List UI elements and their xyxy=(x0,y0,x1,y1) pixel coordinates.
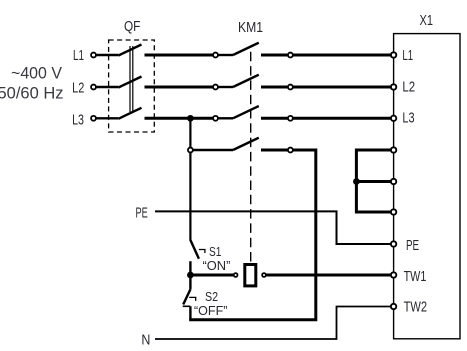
svg-text:L3: L3 xyxy=(402,111,414,127)
X1 spare terminal 1 xyxy=(391,147,396,152)
wire L3 input to QF pole 3 xyxy=(96,117,118,119)
terminal L2 (supply input) xyxy=(72,81,96,97)
wire QF pole 1 to KM1 contact 1 xyxy=(145,54,213,57)
terminal block X1 outline xyxy=(394,34,460,339)
contactor coil KM1 xyxy=(234,265,266,286)
KM1 auxiliary contact (latching) xyxy=(188,138,293,153)
svg-text:TW1: TW1 xyxy=(404,269,427,285)
wire QF pole 3 to KM1 contact 3 xyxy=(145,117,213,120)
svg-text:“ON”: “ON” xyxy=(203,258,231,273)
pushbutton S1 "ON" xyxy=(190,240,230,275)
svg-text:TW2: TW2 xyxy=(404,300,428,316)
KM1 main contact 2 xyxy=(213,75,293,90)
wire KM1 contact 1 to X1 terminal L1 xyxy=(293,54,390,57)
X1 spare terminal 2 xyxy=(391,179,396,184)
wire KM1 aux contact loop to S2 bottom xyxy=(189,150,316,320)
svg-text:“OFF”: “OFF” xyxy=(194,303,227,318)
svg-text:N: N xyxy=(141,333,150,349)
svg-text:PE: PE xyxy=(136,205,149,221)
terminal L1 (supply input) xyxy=(73,48,96,64)
terminal L3 (supply input) xyxy=(72,112,96,128)
svg-text:X1: X1 xyxy=(420,13,434,29)
wire N to X1 terminal TW2 xyxy=(155,307,391,340)
svg-text:50/60 Hz: 50/60 Hz xyxy=(0,84,64,102)
KM1 mechanical linkage dashed line xyxy=(250,47,252,262)
svg-text:QF: QF xyxy=(124,19,141,35)
QF mechanical linkage lines xyxy=(130,46,133,112)
KM1 main contact 3 xyxy=(213,106,293,121)
KM1 main contact 1 xyxy=(213,43,293,58)
wire L2 input to QF pole 2 xyxy=(96,86,118,88)
circuit breaker QF dashed enclosure xyxy=(109,40,155,132)
X1 terminal TW2 xyxy=(391,304,396,309)
svg-text:~400 V: ~400 V xyxy=(11,65,62,83)
wire QF pole 2 to KM1 contact 2 xyxy=(145,86,213,89)
X1 terminal L2 xyxy=(391,84,396,89)
svg-text:KM1: KM1 xyxy=(238,20,263,36)
wire control feed from L3 down to S1 xyxy=(189,118,191,240)
X1 spare terminal 3 xyxy=(391,209,396,214)
wire L1 input to QF pole 1 xyxy=(96,54,118,56)
svg-text:S2: S2 xyxy=(205,289,218,304)
X1 terminal TW1 xyxy=(391,272,396,277)
wire S1 junction to KM1 coil xyxy=(190,274,233,277)
wire PE to X1 terminal PE xyxy=(155,211,391,244)
X1 terminal PE xyxy=(391,241,396,246)
pushbutton S2 "OFF" xyxy=(183,275,228,320)
QF pole 3 blade xyxy=(118,108,141,119)
svg-text:PE: PE xyxy=(406,238,419,254)
junction node on L3 feeding control circuit xyxy=(187,115,194,122)
svg-text:S1: S1 xyxy=(209,244,221,259)
X1 jumper links between spare terminals xyxy=(356,150,390,212)
svg-text:L3: L3 xyxy=(72,112,84,128)
junction node on jumper links xyxy=(353,178,360,185)
X1 terminal L1 xyxy=(391,52,396,57)
svg-text:L1: L1 xyxy=(402,48,413,64)
svg-text:L1: L1 xyxy=(73,48,84,64)
wire KM1 contact 2 to X1 terminal L2 xyxy=(293,86,390,89)
QF pole 1 blade xyxy=(118,45,141,56)
junction node S1/S2/coil xyxy=(187,272,194,279)
wire KM1 coil to X1 terminal TW1 xyxy=(266,274,390,277)
svg-text:L2: L2 xyxy=(402,80,415,96)
QF pole 2 blade xyxy=(118,77,141,88)
X1 terminal L3 xyxy=(391,116,396,121)
wire KM1 contact 3 to X1 terminal L3 xyxy=(293,117,390,120)
svg-text:L2: L2 xyxy=(72,81,84,97)
